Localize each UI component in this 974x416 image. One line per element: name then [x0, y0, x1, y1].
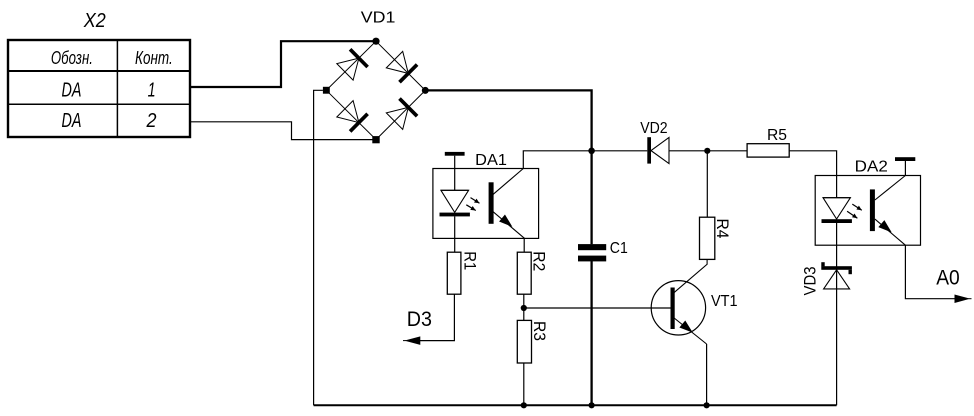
wire VD2 to node C: [669, 150, 707, 152]
bridge diode VD1.2 top-to-right: [386, 51, 417, 82]
svg-text:Конт.: Конт.: [135, 48, 173, 68]
svg-text:Обозн.: Обозн.: [51, 48, 93, 68]
label R3: [530, 321, 549, 341]
DA1 phototransistor: [489, 169, 525, 239]
resistor R5: [747, 144, 789, 157]
label R1: [460, 251, 479, 270]
label C1: [610, 240, 628, 257]
svg-text:A0: A0: [936, 267, 960, 290]
svg-text:C1: C1: [610, 240, 628, 257]
svg-text:1: 1: [148, 79, 156, 101]
wire bridge right node to C1 top plate: [425, 90, 591, 244]
svg-text:R2: R2: [530, 251, 549, 271]
diode VD2: [647, 137, 669, 163]
label A0: [936, 267, 960, 290]
wire DA2 LED cathode through VD3 to bottom rail: [836, 223, 838, 405]
svg-text:X2: X2: [83, 10, 106, 32]
table header labels: [51, 48, 173, 68]
wire X2 pin 2 to bridge bottom node: [190, 122, 376, 140]
wire R2 to base node: [523, 294, 525, 308]
wire DA1 emitter to R2: [523, 238, 525, 252]
wire node B to VD2: [592, 150, 648, 152]
svg-text:R3: R3: [530, 321, 549, 341]
wire node C to R5: [707, 150, 747, 152]
junction R3 at bottom rail: [521, 402, 527, 408]
DA2 collector terminal bar: [895, 157, 915, 175]
junction VT1 emitter at bottom rail: [704, 402, 710, 408]
svg-text:R1: R1: [460, 251, 479, 270]
label X2: [83, 10, 106, 32]
DA2 phototransistor: [870, 176, 906, 246]
svg-text:VD2: VD2: [640, 120, 667, 137]
optocoupler DA1 box: [433, 169, 539, 239]
svg-text:DA2: DA2: [855, 159, 888, 176]
resistor R4: [700, 217, 715, 259]
DA1 anode terminal bar: [445, 152, 465, 190]
svg-text:2: 2: [146, 110, 157, 132]
wire DA2 emitter to A0 arrow: [905, 245, 967, 299]
wire base node to R3: [523, 308, 525, 320]
label VD1: [361, 9, 396, 26]
wire R4 to VT1 collector: [674, 259, 708, 293]
wire R5 to DA2 LED: [789, 151, 836, 198]
bottom rail wire: [314, 404, 837, 406]
label R4: [713, 219, 732, 239]
DA1 LED: [440, 190, 470, 216]
zener diode VD3: [821, 262, 852, 289]
wire bridge left node to bottom rail: [314, 90, 323, 405]
wire R1 to D3 arrow: [408, 294, 455, 340]
svg-text:R5: R5: [767, 127, 787, 144]
wire DA1 LED cathode to R1: [454, 216, 456, 252]
svg-text:VT1: VT1: [711, 293, 738, 310]
svg-text:VD1: VD1: [361, 9, 396, 26]
bridge diode VD1.4 bottom-to-right: [386, 99, 417, 130]
resistor R2: [517, 252, 531, 294]
junction bridge top node: [372, 38, 379, 45]
arrow to D3: [403, 337, 420, 344]
label VT1: [711, 293, 738, 310]
svg-text:DA1: DA1: [475, 152, 507, 169]
junction C1 branch at bottom rail: [589, 402, 595, 408]
bridge diode VD1.1 left-to-top: [337, 49, 368, 80]
bridge diode VD1.3 left-to-bottom: [337, 101, 368, 132]
wire X2 pin 1 to bridge top node: [190, 41, 376, 87]
DA2 light arrows: [847, 204, 862, 218]
capacitor C1: [578, 244, 606, 261]
label DA1: [475, 152, 507, 169]
wire R3 to bottom rail: [523, 363, 525, 405]
junction bridge bottom node: [372, 136, 379, 143]
wire DA1 collector to node B: [523, 151, 591, 169]
resistor R3: [517, 320, 531, 363]
svg-text:D3: D3: [407, 308, 432, 331]
svg-text:R4: R4: [713, 219, 732, 239]
wire base node to VT1 base: [524, 307, 671, 309]
svg-text:DA: DA: [62, 110, 82, 132]
svg-text:VD3: VD3: [801, 267, 820, 296]
label VD3: [801, 267, 820, 296]
X2 pin 1 row labels: [62, 79, 156, 101]
label R5: [767, 127, 787, 144]
wire node C to R4: [706, 151, 708, 217]
label VD2: [640, 120, 667, 137]
arrow to A0: [955, 295, 972, 302]
X2 pin 2 row labels: [62, 110, 157, 132]
label DA2: [855, 159, 888, 176]
label R2: [530, 251, 549, 271]
label D3: [407, 308, 432, 331]
junction bridge left node: [323, 87, 330, 94]
bridge diamond wires: [326, 41, 425, 139]
DA2 LED: [822, 198, 852, 223]
wire VT1 emitter to bottom rail: [706, 344, 708, 405]
optocoupler DA2 box: [815, 176, 920, 246]
wire C1 bottom plate to bottom rail: [590, 261, 592, 405]
transistor VT1: [651, 281, 706, 344]
junction bridge right node: [422, 87, 429, 94]
svg-text:DA: DA: [62, 79, 82, 101]
junction node C: [704, 148, 710, 154]
junction base node R2/R3: [521, 305, 527, 311]
junction node B on positive rail: [588, 148, 595, 155]
resistor R1: [447, 252, 461, 294]
DA1 light arrows: [466, 198, 479, 211]
connector table X2 frame: [8, 40, 190, 137]
